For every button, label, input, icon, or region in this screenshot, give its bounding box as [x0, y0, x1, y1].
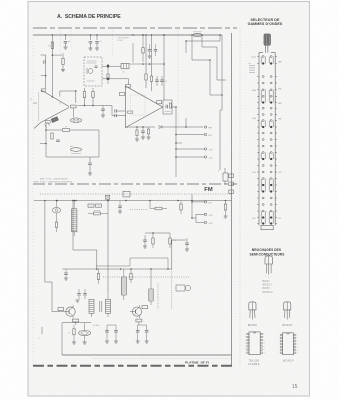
switch contact row 1 — [257, 56, 277, 58]
capacitor C19 — [112, 106, 126, 113]
switch contact row 18 — [257, 171, 277, 173]
terminal +OC — [176, 156, 213, 160]
switch contact row 8 — [257, 107, 277, 109]
switch bridge rows 5-7 — [261, 90, 273, 103]
resistor R6 capacitor C6 — [51, 133, 60, 142]
block discri — [163, 100, 172, 114]
wire above mixer — [60, 90, 77, 103]
switch contact row 7 — [257, 102, 277, 104]
labels transistor list — [263, 280, 273, 294]
label oscillator — [118, 36, 130, 42]
capacitor C9 — [155, 76, 159, 86]
dashed block demodulateur — [84, 57, 102, 86]
transistor package BF245A — [248, 302, 257, 327]
resistor R17 — [152, 233, 154, 248]
wire bottom link — [62, 323, 99, 327]
resistor R21 — [68, 325, 76, 344]
dotted line bottom — [93, 357, 232, 359]
capacitor C22 — [185, 238, 189, 251]
resistor R25 — [55, 222, 57, 232]
switch label voyant — [251, 56, 257, 59]
resistor R24 — [142, 34, 144, 62]
capacitor C7 — [88, 157, 92, 175]
switch bridge rows 10-11 — [261, 121, 273, 128]
selector knob stems — [265, 45, 268, 52]
switch bridge rows 15-16 — [261, 153, 273, 160]
switch contact row 11 — [257, 126, 277, 128]
switch label AM right 2 — [279, 102, 282, 105]
junction box X — [105, 195, 109, 199]
resistor R16 — [224, 201, 228, 219]
resistor R1 — [48, 42, 54, 49]
designator box C17 — [136, 319, 142, 325]
varicap D4 pair — [70, 118, 81, 123]
label ampli fi am — [34, 181, 73, 184]
capacitor C5 — [44, 60, 46, 63]
wire right loop C — [202, 35, 226, 80]
wire left drop — [41, 55, 46, 61]
designator box L3 — [73, 319, 79, 325]
transistor package BF194B — [282, 302, 292, 327]
wire R10 drop — [145, 35, 147, 74]
switch contact row 25 — [257, 217, 277, 219]
switch contact row 24 — [257, 210, 277, 212]
paper grain — [0, 0, 1, 1]
switch label GO right — [279, 172, 282, 174]
terminal +PO — [176, 148, 213, 152]
switch contact row 12 — [257, 132, 277, 134]
transformer T2 — [72, 200, 77, 236]
switch bridge rows 24-26 — [261, 211, 273, 224]
switch contact row 17 — [257, 165, 277, 167]
capacitor C8 — [101, 106, 105, 118]
wire stub left — [38, 327, 42, 340]
wire U2 output — [163, 106, 177, 108]
board outline chain line top — [33, 27, 237, 29]
designator box U2 out — [157, 101, 162, 104]
wire right loop B — [221, 35, 223, 110]
wire rail link — [191, 194, 193, 201]
capacitor C24 — [148, 44, 152, 58]
transformer T4 — [121, 269, 126, 300]
capacitor C15 — [105, 325, 116, 343]
terminal GO — [191, 201, 212, 205]
wire right drop — [220, 110, 222, 170]
switch contact row 10 — [257, 120, 277, 122]
section dotted divider 1 — [59, 28, 61, 54]
section dotted divider 2 — [70, 28, 72, 48]
terminal B.O — [176, 133, 212, 137]
wire left drop lower — [41, 64, 47, 89]
wire stub 3 — [175, 142, 182, 144]
switch contact row 6 — [257, 95, 277, 97]
wire osc vertical — [163, 34, 165, 100]
capacitor C3 — [95, 35, 102, 50]
switch contact row 5 — [257, 89, 277, 91]
capacitor C12 — [143, 235, 147, 248]
connector J1 — [218, 168, 228, 184]
switch contact row 23 — [257, 204, 277, 206]
wire apex down — [73, 108, 75, 118]
switch contact row 2 — [257, 63, 277, 65]
dotted vertical x172 — [171, 269, 173, 310]
switch bridge rows 1-2 — [261, 57, 273, 64]
wire stub 2 — [185, 118, 187, 127]
wire long vertical to T3 — [107, 199, 109, 293]
switch bridge rows 19-21 — [261, 179, 273, 192]
wire long left vertical — [45, 201, 52, 283]
switch contact row 3 — [257, 76, 277, 78]
switch contact row 20 — [257, 184, 277, 186]
wire cluster top — [145, 232, 170, 234]
transformer T3 — [89, 293, 111, 317]
bus wire vertical x176 — [175, 107, 177, 177]
capacitor C26 — [154, 44, 158, 56]
switch contact row 22 — [257, 197, 277, 199]
switch contact row 15 — [257, 152, 277, 154]
resistor R7 — [83, 88, 85, 106]
block on rail — [123, 191, 130, 197]
diode D1 — [102, 65, 121, 68]
resistor R9 — [107, 64, 109, 84]
switch label 1-FM — [252, 118, 257, 120]
inductor L2 — [149, 269, 153, 305]
capacitor C25 electrolytic — [53, 200, 61, 222]
selector switch body — [259, 53, 275, 230]
wire osc horizontal — [130, 63, 165, 65]
switch label AM right — [279, 61, 282, 64]
V+ supply rail top — [33, 34, 222, 36]
switch label PO right — [279, 218, 282, 220]
switch legend list — [249, 63, 256, 72]
mixer stage wires Q10 — [34, 90, 69, 129]
wire mid link B — [96, 258, 130, 266]
wire AFC tap — [40, 143, 47, 145]
capacitor C17 — [136, 325, 147, 343]
wire transformer feeds — [121, 43, 133, 66]
designator boxes mixer — [41, 89, 50, 123]
resistor R15 — [180, 201, 182, 215]
diode D2 — [102, 78, 129, 85]
wire stage link — [78, 105, 113, 107]
board outline dotted right — [239, 28, 241, 366]
wire terminal tree — [191, 202, 196, 223]
wire right loop A — [192, 35, 222, 95]
capacitor C2 — [89, 35, 93, 50]
wire bus mid — [62, 268, 171, 270]
switch label 3-GO — [252, 172, 257, 174]
switch contact row 19 — [257, 178, 277, 180]
capacitor C14 — [76, 289, 81, 302]
terminal OC — [196, 221, 213, 225]
capacitor C13 — [83, 289, 87, 299]
terminal FM out — [204, 126, 211, 130]
block osc local — [176, 285, 191, 291]
resistor R23 — [61, 53, 65, 72]
wire node A vertical — [52, 35, 62, 98]
designator boxes T2 — [88, 204, 102, 208]
label ampli fi fm — [40, 178, 69, 181]
capacitor C16 — [114, 325, 118, 343]
op-amp U2 — [126, 86, 163, 128]
resistor R19 — [97, 269, 99, 284]
inductor bead L4 — [45, 117, 59, 128]
right bus wire — [226, 33, 232, 366]
resistor R4 AFC — [70, 145, 82, 154]
dotted wire mid — [103, 276, 191, 278]
resistor R10 — [145, 74, 147, 88]
capacitor C18 — [145, 325, 149, 343]
feedback loop wires U1 — [45, 123, 99, 157]
wire to discriminator — [126, 126, 156, 129]
section dotted divider 3 — [111, 28, 113, 56]
board edge heavy dashed line — [33, 365, 233, 367]
dashed wire AM — [130, 208, 148, 210]
node 1 stub — [30, 99, 37, 103]
capacitor C10 — [160, 76, 167, 86]
switch contact row 21 — [257, 191, 277, 193]
capacitor C21 — [118, 201, 122, 214]
switch contact row 14 — [257, 145, 277, 147]
designator boxes U2 — [119, 85, 133, 114]
resistor R5 — [63, 127, 70, 132]
wire right loop D — [185, 35, 220, 53]
resistor R11 — [150, 35, 152, 91]
inductor L3 — [79, 323, 91, 345]
transistor Q1 — [58, 305, 78, 320]
capacitor C11 — [141, 127, 145, 139]
transformer T1 — [121, 63, 129, 73]
switch label FM right 2 — [279, 119, 282, 121]
switch contact row 4 — [257, 82, 277, 84]
transistor Q2 — [130, 305, 148, 318]
resistor R12 — [135, 127, 139, 141]
capacitor C23 — [64, 269, 68, 280]
switch contact row 9 — [257, 114, 277, 116]
rail lower A dotted — [40, 193, 232, 195]
wire stepped — [73, 201, 97, 270]
switch label FM right — [279, 89, 282, 91]
board outline dotted left — [32, 28, 34, 366]
fuse FU1 on rail — [193, 32, 202, 37]
ground rail bottom — [62, 323, 232, 355]
wire mid link A — [130, 258, 169, 270]
dotted internal block U2 — [131, 95, 146, 115]
dotted vertical x158 — [157, 283, 159, 310]
selector knob — [264, 34, 270, 45]
IC package TDA1200 — [245, 332, 265, 366]
switch contact row 26 — [257, 223, 277, 225]
resistor R13 — [88, 211, 108, 215]
section dotted divider 4 — [177, 28, 179, 130]
diode D3 — [136, 126, 203, 129]
switch contact row 13 — [257, 139, 277, 141]
rail lower B — [34, 200, 232, 202]
junction blocks right bus — [229, 174, 234, 193]
switch contact row 16 — [257, 158, 277, 160]
wire to Q1 — [52, 282, 63, 312]
section divider chain line — [33, 183, 237, 185]
IC package MC005P — [279, 333, 298, 363]
resistor R20 — [130, 269, 132, 283]
transistor package TO-92 large — [265, 255, 273, 279]
resistor R14 — [150, 201, 167, 210]
wire up right — [172, 240, 186, 269]
terminal PO — [196, 213, 213, 217]
switch label 2-AM — [252, 89, 257, 92]
designator box U1 out — [71, 105, 77, 108]
capacitor C1 — [64, 35, 71, 49]
resistor R18 — [169, 233, 177, 248]
resistor R22 — [147, 127, 151, 139]
switch label 4-PO — [252, 218, 257, 220]
resistor R8 — [92, 88, 94, 106]
capacitor C20 — [112, 111, 126, 117]
